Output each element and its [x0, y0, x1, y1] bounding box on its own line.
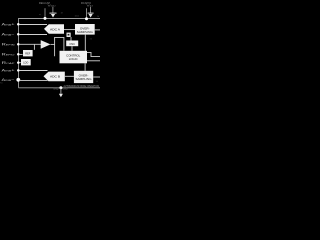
- OSC box: [66, 41, 78, 47]
- wire buffer output: [51, 43, 56, 45]
- wire SDOB out: [93, 76, 100, 78]
- pin dot AINA-: [17, 33, 20, 36]
- LDO box: [21, 59, 31, 65]
- pin dot AINA+: [17, 23, 20, 26]
- svg-text:ADC B: ADC B: [50, 75, 60, 79]
- svg-text:GND: GND: [53, 87, 59, 90]
- background: [0, 0, 100, 100]
- chip boundary: [19, 19, 101, 88]
- VDD pin bar: [50, 12, 57, 14]
- svg-text:GND: GND: [63, 89, 68, 91]
- wire AINB-: [19, 79, 48, 81]
- top pin dot REGCAP: [44, 17, 47, 20]
- pin dot AINB- (large): [16, 78, 20, 82]
- GND pin line: [60, 88, 62, 94]
- wire oversampling A to control logic: [84, 35, 86, 51]
- wire REFIO: [19, 53, 23, 55]
- svg-text:nc: nc: [39, 14, 41, 16]
- VIO arrow: [89, 14, 93, 18]
- VIO pin bar: [88, 12, 94, 14]
- chip boundary bottom: [19, 87, 101, 89]
- svg-text:ADC A: ADC A: [50, 27, 60, 31]
- svg-text:SAMPLING: SAMPLING: [77, 30, 94, 34]
- wire OSC to control logic: [71, 46, 73, 51]
- wire small box to OSC: [70, 37, 72, 41]
- pin dot AINB+: [17, 69, 20, 72]
- svg-text:AUTONOMOUS MODE OPERATION: AUTONOMOUS MODE OPERATION: [64, 84, 100, 88]
- oversampling A box: [75, 24, 95, 35]
- top pin dot RCAPIO: [85, 17, 88, 20]
- wire ADC B to oversampling: [65, 75, 74, 77]
- GND pin dot: [59, 86, 62, 89]
- wire vertical ref distribution: [55, 37, 64, 56]
- ref buffer triangle: [41, 40, 51, 49]
- ADC A flag: [44, 24, 64, 34]
- wire ADC A to oversampling: [64, 29, 75, 31]
- top pin line to REGCAP dot: [44, 8, 46, 17]
- oversampling B box: [74, 71, 93, 83]
- REF box: [23, 50, 33, 56]
- top pin line to RCAPIO dot: [86, 8, 88, 17]
- pin dot REFIO: [17, 53, 20, 56]
- pin dot REFIN: [17, 43, 20, 46]
- control logic box: [60, 51, 88, 64]
- svg-text:OSC: OSC: [69, 42, 75, 46]
- pin dot REGCAP: [17, 61, 20, 64]
- svg-text:SAMPLING: SAMPLING: [76, 77, 93, 81]
- VIO pin line: [90, 7, 92, 13]
- wire SDOA out: [95, 29, 100, 31]
- wire REF box to REFIN net: [33, 44, 35, 50]
- wire AINA-: [19, 34, 47, 36]
- wire AINA+: [19, 24, 47, 26]
- svg-text:REF: REF: [25, 53, 30, 56]
- wire SCLK out: [87, 60, 100, 62]
- wire control logic to oversampling B: [84, 63, 86, 71]
- wire AINB+: [19, 70, 48, 72]
- wire REFIN: [19, 43, 44, 45]
- VDD arrow: [51, 14, 55, 18]
- wire CS dogleg out: [87, 52, 100, 56]
- svg-text:LDO: LDO: [23, 62, 28, 65]
- GND arrow: [59, 94, 63, 98]
- ADC B flag: [44, 72, 65, 82]
- small box above OSC: [67, 33, 71, 37]
- wire REGCAP: [19, 62, 21, 64]
- svg-text:100n: 100n: [75, 16, 79, 18]
- svg-text:LOGIC: LOGIC: [69, 57, 78, 61]
- VDD pin line: [52, 7, 54, 13]
